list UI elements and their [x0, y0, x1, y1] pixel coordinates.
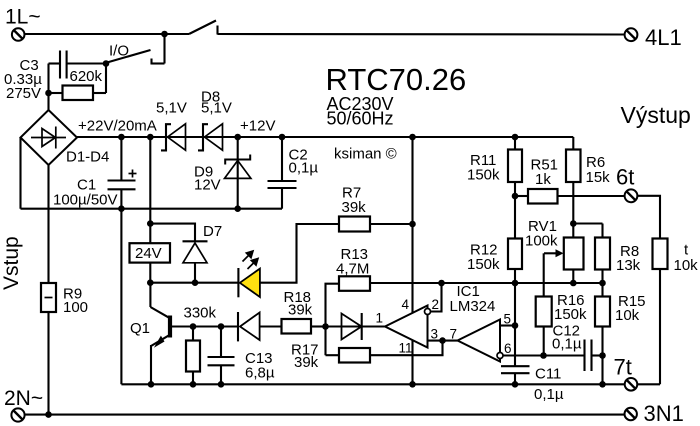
node C1 top [118, 134, 125, 141]
wire R7 right [370, 223, 413, 225]
op-amp U1B [458, 320, 504, 362]
diode base series [238, 312, 260, 341]
resistor R6 [566, 137, 581, 238]
LED indicator [238, 268, 260, 297]
svg-text:0,1µ: 0,1µ [534, 386, 564, 403]
svg-text:Výstup: Výstup [621, 102, 691, 128]
svg-text:100µ/50V: 100µ/50V [53, 192, 118, 209]
wire D7 branch horizontal [150, 224, 195, 241]
node D7 bottom [192, 279, 199, 286]
label R7 39k [342, 185, 367, 217]
diode to pin 1 [342, 313, 362, 340]
capacitor C11 [501, 366, 530, 384]
svg-text:39k: 39k [342, 199, 367, 216]
svg-text:7t: 7t [614, 355, 632, 380]
svg-text:5,1V: 5,1V [201, 100, 232, 117]
svg-text:4,7M: 4,7M [336, 261, 369, 278]
wire pin5 [500, 324, 515, 326]
node R7 pin4 line [409, 221, 416, 228]
node pin11 ground [409, 381, 416, 388]
svg-text:150k: 150k [554, 306, 587, 323]
wire R17 left [326, 354, 340, 356]
node R9 on 2N rail [45, 411, 52, 418]
svg-text:D7: D7 [203, 223, 222, 240]
terminal 3N1 [625, 408, 637, 420]
svg-text:620k: 620k [70, 68, 103, 85]
wire 24V box bottom [149, 263, 151, 283]
svg-text:10k: 10k [615, 307, 640, 324]
svg-text:D1-D4: D1-D4 [66, 149, 109, 166]
node RV1 bottom [570, 280, 577, 287]
node 620k left [45, 90, 52, 97]
svg-text:150k: 150k [467, 167, 500, 184]
wire inner ground rail [121, 383, 624, 385]
switch I/O contact [150, 59, 152, 65]
svg-text:275V: 275V [6, 85, 41, 102]
svg-text:1: 1 [376, 311, 384, 326]
potentiometer RV1 [544, 238, 584, 284]
node D7 branch [147, 220, 154, 227]
svg-text:C11: C11 [535, 366, 561, 383]
label R11 150k [467, 152, 500, 184]
wire bottom outer rail [25, 414, 625, 416]
svg-text:3: 3 [431, 327, 439, 342]
svg-text:5: 5 [504, 312, 512, 327]
svg-text:330k: 330k [184, 305, 217, 322]
svg-text:13k: 13k [616, 257, 641, 274]
capacitor C3 [49, 51, 67, 79]
wire pin4 vertical [411, 137, 413, 313]
resistor 620k [49, 64, 107, 101]
node pin6 R16 C12 [540, 352, 547, 359]
node C13 top [218, 323, 225, 330]
svg-text:2: 2 [432, 297, 440, 312]
svg-text:100k: 100k [525, 233, 558, 250]
label R9 100 [63, 286, 88, 317]
label C13 value [245, 350, 275, 382]
node RV1 top [570, 220, 577, 227]
svg-text:1L~: 1L~ [5, 6, 41, 29]
node 24V bottom [147, 279, 154, 286]
node R15 ground [599, 381, 606, 388]
resistor R15 [595, 297, 610, 356]
svg-text:Q1: Q1 [130, 320, 150, 337]
wire R18 right [311, 325, 326, 327]
node pin4 top rail [409, 134, 416, 141]
wire 24V column upper [149, 137, 151, 243]
svg-text:2N~: 2N~ [4, 387, 43, 410]
node C1 bottom [118, 205, 125, 212]
wire pin11 [411, 340, 413, 384]
label D9 12V [194, 164, 221, 194]
LED arrow 1 [243, 250, 255, 262]
resistor R51 [515, 189, 624, 204]
node junction top rail [161, 31, 168, 38]
node I/O left [103, 60, 110, 67]
wire R15 to ground rail [601, 356, 603, 385]
resistor 330k [186, 327, 200, 385]
svg-text:3N1: 3N1 [644, 401, 684, 426]
resistor R7 [339, 217, 370, 232]
wire 6t to t resistor [638, 196, 661, 239]
node R11 top [512, 134, 519, 141]
wire 620k node to bridge top [47, 93, 49, 111]
svg-text:10k: 10k [674, 257, 699, 274]
wire R17 right to feedback [370, 341, 443, 356]
capacitor C2 [268, 137, 297, 209]
svg-text:12V: 12V [194, 177, 221, 194]
node Q1 emitter ground [148, 381, 155, 388]
capacitor C12 [544, 340, 603, 372]
svg-text:7: 7 [450, 327, 458, 342]
transistor Q1 [150, 283, 193, 385]
node output feedback [439, 337, 446, 344]
node Q1 base [190, 323, 197, 330]
svg-text:1k: 1k [535, 171, 551, 188]
wire I/O contact to drop [152, 62, 165, 64]
svg-text:39k: 39k [288, 302, 313, 319]
label C3 value [4, 57, 42, 102]
resistor R13 [339, 276, 370, 291]
wire top rail left [25, 33, 190, 35]
wire pin6 [503, 354, 544, 356]
wire diode to opamp pin1 [326, 325, 386, 327]
wire R13 left vertical [326, 284, 340, 356]
node C2 top [279, 134, 286, 141]
svg-text:0,1µ: 0,1µ [552, 336, 582, 353]
label R12 150k [467, 242, 500, 274]
bridge rectifier D1-D4 [21, 110, 78, 165]
terminal 7t [625, 378, 638, 391]
switch S1 blade [189, 21, 216, 35]
label RV1 100k [525, 218, 558, 250]
svg-text:4L1: 4L1 [645, 25, 682, 50]
svg-text:150k: 150k [467, 256, 500, 273]
node 330k ground [190, 381, 197, 388]
node +12V [234, 134, 241, 141]
resistor R18 [282, 319, 312, 334]
node R51 junction [512, 193, 519, 200]
wire bridge bottom to R9 [47, 165, 49, 283]
switch S1 contact [216, 26, 218, 35]
resistor R9 [41, 283, 56, 312]
resistor R11 [508, 137, 522, 196]
label R13 4,7M [336, 246, 369, 278]
label C1 value [53, 177, 118, 209]
terminal 4L1 [625, 28, 638, 41]
svg-text:ksiman ©: ksiman © [334, 146, 397, 163]
wire inverting rail right [370, 282, 603, 284]
wire R9 to 2N rail [47, 312, 49, 415]
node D9 bottom [234, 205, 241, 212]
node C13 ground [218, 381, 225, 388]
svg-text:6t: 6t [616, 165, 634, 190]
label C12 value [552, 323, 582, 353]
LED arrow 2 [248, 257, 260, 269]
svg-text:6: 6 [504, 341, 512, 356]
label C2 value [289, 147, 319, 177]
label R6 15k [586, 154, 611, 186]
node C12 right [599, 352, 606, 359]
terminal 6t [625, 189, 638, 202]
node R18 R13 R17 [322, 323, 329, 330]
zener diode D8 [198, 124, 223, 151]
resistor R8 [595, 224, 610, 297]
resistor R16 [536, 253, 552, 355]
svg-text:11: 11 [399, 341, 413, 356]
svg-text:6,8µ: 6,8µ [245, 365, 275, 382]
label R18 39k [284, 289, 313, 319]
switch I/O blade [107, 50, 151, 63]
node pin2 [438, 280, 445, 287]
svg-text:15k: 15k [586, 169, 611, 186]
regulator block 24V [130, 243, 171, 262]
label R51 1k [531, 157, 559, 189]
zener diode 5,1V first [161, 124, 186, 151]
wire +V top rail [77, 136, 573, 138]
svg-text:100: 100 [63, 299, 88, 316]
node R8 bottom [599, 280, 606, 287]
capacitor C13 [208, 327, 235, 385]
label t 10k [674, 242, 699, 275]
wire diode to R18 [260, 325, 282, 327]
svg-text:50/60Hz: 50/60Hz [327, 109, 394, 129]
terminal 2N~ [11, 408, 24, 421]
wire C3 left drop [47, 64, 49, 94]
wire pin3 to pin7 [428, 340, 458, 342]
label R15 10k [615, 293, 646, 324]
svg-text:0,1µ: 0,1µ [289, 160, 319, 177]
svg-text:5,1V: 5,1V [156, 100, 187, 117]
svg-text:LM324: LM324 [450, 298, 496, 315]
wire R12 to C11 [514, 283, 516, 366]
node R12 bottom [512, 280, 519, 287]
label R17 39k [291, 342, 319, 372]
zener diode D9 [225, 137, 251, 209]
svg-text:+22V/20mA: +22V/20mA [78, 118, 157, 135]
wire switch pivot drop [163, 34, 165, 64]
label R16 150k [554, 292, 587, 323]
wire LED anode to R7 [260, 224, 339, 283]
svg-text:39k: 39k [294, 354, 319, 371]
wire pin2 [431, 283, 442, 312]
svg-text:+12V: +12V [240, 118, 275, 135]
wire AC2 drop from bridge left corner [19, 138, 21, 209]
capacitor C1 [108, 137, 137, 209]
label R8 13k [616, 243, 641, 274]
wire C3 right to I/O node [68, 62, 107, 64]
node C11 ground [512, 381, 519, 388]
wire base row [193, 325, 238, 327]
wire mid ground rail [21, 208, 283, 210]
resistor R17 [339, 348, 370, 363]
wire top rail right [218, 33, 625, 36]
wire RV1 R8 top link [573, 222, 602, 224]
diode D7 [183, 241, 208, 282]
svg-text:RTC70.26: RTC70.26 [326, 62, 467, 97]
resistor t [638, 239, 668, 385]
svg-text:24V: 24V [135, 245, 162, 262]
node pin5 [512, 322, 519, 329]
node 24V column top [147, 134, 154, 141]
wire LED rail [150, 282, 238, 284]
terminal 1L~ [12, 28, 25, 41]
svg-text:4: 4 [402, 297, 410, 312]
label C11 value [534, 366, 564, 404]
svg-text:Vstup: Vstup [0, 236, 23, 290]
resistor R12 [508, 196, 522, 283]
wire ground rail left riser [120, 209, 122, 385]
op-amp U1A [385, 306, 431, 348]
